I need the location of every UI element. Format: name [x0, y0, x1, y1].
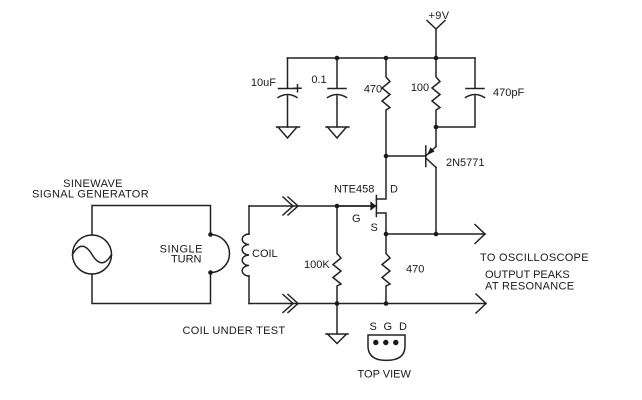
svg-text:S: S	[371, 222, 378, 234]
svg-text:G: G	[384, 321, 393, 333]
svg-text:470: 470	[364, 84, 382, 96]
svg-text:TOP VIEW: TOP VIEW	[358, 369, 412, 381]
svg-text:S: S	[370, 321, 377, 333]
svg-text:NTE458: NTE458	[334, 184, 374, 196]
svg-text:G: G	[352, 213, 361, 225]
svg-text:+9V: +9V	[428, 10, 449, 22]
svg-text:COIL: COIL	[252, 248, 278, 260]
svg-text:2N5771: 2N5771	[446, 157, 485, 169]
svg-text:COIL UNDER TEST: COIL UNDER TEST	[183, 325, 286, 337]
svg-text:AT RESONANCE: AT RESONANCE	[485, 281, 574, 293]
svg-text:SIGNAL GENERATOR: SIGNAL GENERATOR	[32, 189, 149, 201]
svg-text:D: D	[390, 184, 398, 196]
svg-text:0.1: 0.1	[311, 74, 326, 86]
svg-text:TO OSCILLOSCOPE: TO OSCILLOSCOPE	[480, 252, 589, 264]
svg-text:OUTPUT PEAKS: OUTPUT PEAKS	[485, 269, 570, 281]
svg-text:100: 100	[411, 82, 429, 94]
svg-text:TURN: TURN	[171, 254, 202, 266]
svg-text:470: 470	[406, 264, 424, 276]
svg-text:D: D	[399, 321, 407, 333]
svg-text:470pF: 470pF	[493, 87, 524, 99]
svg-text:100K: 100K	[304, 259, 330, 271]
svg-text:10uF: 10uF	[251, 77, 276, 89]
